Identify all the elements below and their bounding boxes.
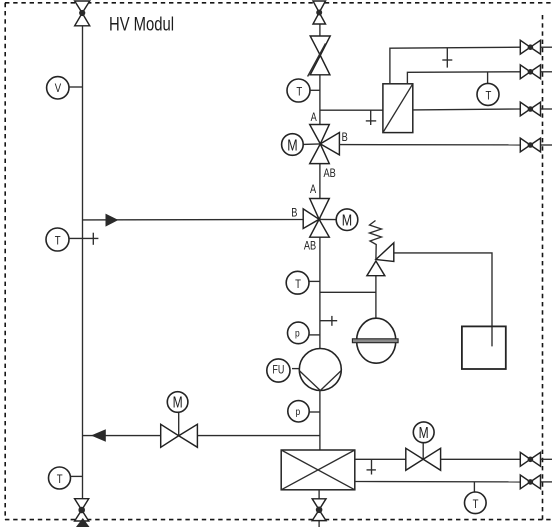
wire: M1 B port line to valve V14 — [339, 144, 520, 146]
wire: P1 connector — [309, 334, 320, 336]
valve V11 top right — [520, 40, 552, 54]
valve V12 — [520, 65, 552, 79]
wire: T1 connector with test tick — [69, 233, 98, 245]
test tick on heat exchanger line — [366, 110, 376, 125]
svg-text:p: p — [295, 327, 300, 339]
wire: M4 to valve VB1 — [441, 458, 521, 460]
svg-text:B: B — [291, 208, 297, 220]
svg-text:T: T — [57, 473, 63, 486]
svg-text:HV Modul: HV Modul — [109, 14, 174, 35]
wire: T5 connector — [309, 280, 320, 282]
valve V14 — [520, 138, 552, 152]
dashed border bottom — [5, 519, 552, 521]
wire: safety valve discharge to tank — [394, 253, 492, 347]
svg-text:AB: AB — [324, 168, 336, 180]
motor M2 actuator — [319, 209, 358, 231]
motor M4 actuator — [413, 422, 434, 443]
valve bottom-left isolation — [75, 499, 89, 521]
wire: T3 connector — [310, 89, 320, 91]
motor M1 actuator — [282, 134, 321, 156]
wire: E2 drain stub — [318, 490, 320, 527]
pump P — [299, 349, 341, 391]
test tick on top line — [442, 48, 452, 68]
svg-text:A: A — [311, 112, 317, 124]
svg-text:B: B — [342, 132, 348, 144]
motor M3 actuator — [167, 392, 188, 413]
wire: left supply pipe — [82, 26, 84, 499]
svg-text:T: T — [485, 89, 491, 102]
svg-text:M: M — [419, 423, 429, 441]
frequency converter FU — [267, 359, 300, 382]
safety valve SV — [367, 221, 394, 276]
sensor T4 — [477, 72, 499, 105]
valve balancing valve — [308, 36, 331, 77]
svg-text:FU: FU — [272, 364, 284, 376]
svg-text:M: M — [173, 393, 183, 411]
valve top-center isolation — [313, 1, 326, 24]
sensor T3 — [287, 79, 310, 102]
wire: V sensor connector — [69, 86, 83, 88]
svg-text:T: T — [295, 278, 301, 291]
wire: E2 to valve M4 — [355, 458, 406, 460]
tap stub with tick on riser — [320, 316, 337, 326]
sensor T5 — [286, 271, 309, 294]
wire: supply branch to mixing valve B port — [83, 219, 304, 221]
svg-text:M: M — [342, 212, 352, 230]
heat exchanger E2 — [281, 450, 355, 490]
svg-text:A: A — [310, 184, 316, 196]
sensor P1 — [288, 322, 310, 344]
dashed border top — [5, 2, 552, 4]
wire: riser branch to plate heat exchanger — [320, 109, 383, 111]
wire: E1 primary top line — [390, 47, 520, 84]
wire: module center riser — [319, 24, 321, 450]
valve M4 — [406, 443, 441, 471]
valve VB2 bottom right lower — [520, 475, 552, 489]
flow arrow left — [91, 429, 106, 442]
plate heat exchanger E1 — [383, 84, 413, 133]
drain arrow bottom-left — [76, 518, 90, 527]
sensor T2 bottom-left — [49, 467, 71, 489]
svg-text:M: M — [287, 137, 297, 155]
valve M1 three-way — [310, 125, 340, 164]
svg-text:T: T — [296, 86, 302, 99]
sensor T1 — [46, 228, 69, 251]
wire: E2 lower line — [355, 481, 521, 483]
svg-text:AB: AB — [304, 241, 316, 253]
valve M2 three-way — [303, 199, 329, 238]
sensor P2 — [288, 401, 309, 422]
wire: E1 line to valve V13 — [413, 108, 521, 111]
dashed border left — [4, 3, 6, 520]
wire: T2 connector — [71, 475, 83, 477]
test tick on E2 line — [367, 459, 376, 474]
svg-text:p: p — [295, 405, 300, 417]
svg-text:V: V — [55, 82, 62, 95]
drain tank — [462, 326, 506, 369]
valve V13 — [520, 102, 552, 116]
wire: return pipe — [83, 435, 321, 437]
sensor T6 — [465, 482, 487, 514]
svg-text:T: T — [55, 235, 61, 248]
valve VB1 bottom right — [520, 452, 552, 466]
valve top-left isolation — [75, 1, 90, 26]
valve below E2 — [312, 499, 326, 521]
wire: P2 connector — [309, 411, 320, 413]
sensor V flow meter — [47, 77, 69, 99]
dashed border right — [542, 15, 544, 520]
valve M3 return control valve — [161, 412, 198, 448]
wire: expansion branch — [320, 276, 376, 319]
expansion vessel — [352, 318, 398, 363]
wire: E1 secondary top line — [407, 72, 520, 84]
svg-text:T: T — [473, 498, 479, 511]
flow arrow right — [106, 214, 119, 227]
